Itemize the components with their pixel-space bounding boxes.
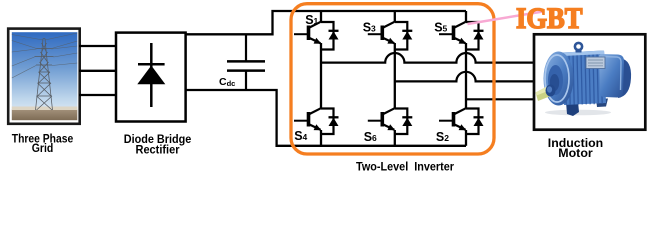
- svg-text:IGBT: IGBT: [516, 2, 583, 35]
- svg-text:S1: S1: [305, 13, 318, 27]
- svg-text:S5: S5: [434, 21, 447, 35]
- svg-text:Two-Level Inverter: Two-Level Inverter: [356, 160, 454, 174]
- svg-text:S3: S3: [363, 21, 376, 35]
- svg-text:Grid: Grid: [32, 141, 54, 155]
- svg-text:Motor: Motor: [558, 148, 593, 160]
- svg-text:S4: S4: [294, 129, 307, 143]
- svg-text:Rectifier: Rectifier: [136, 143, 180, 157]
- svg-text:S2: S2: [436, 130, 449, 144]
- svg-text:S6: S6: [364, 130, 377, 144]
